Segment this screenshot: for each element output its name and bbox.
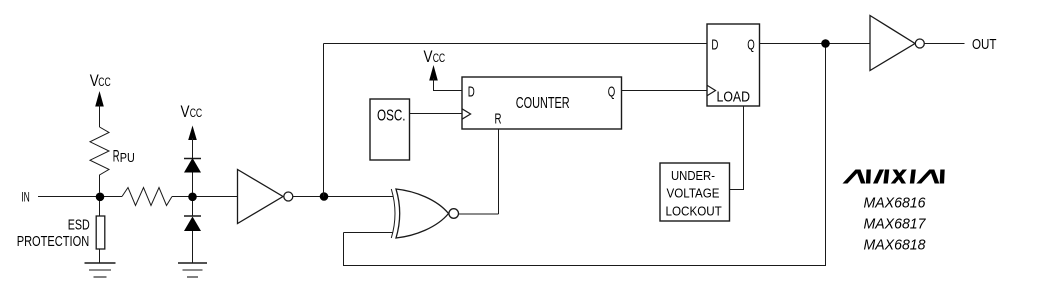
wire OSC to counter clock xyxy=(410,113,463,115)
diode D2 (clamp from GND): cathode bar xyxy=(184,215,201,217)
logo MAXIM A bar xyxy=(883,170,889,184)
wire junction to diode D2 xyxy=(192,201,194,216)
logo MAXIM M2 bar xyxy=(940,170,945,184)
wire counter Q to latch LOAD clock xyxy=(622,90,708,92)
svg-text:PROTECTION: PROTECTION xyxy=(17,234,90,250)
logo MAXIM M1 bar xyxy=(866,170,871,184)
logo MAXIM M1 rise xyxy=(843,170,945,184)
svg-text:PU: PU xyxy=(120,151,135,165)
inverter U4 (output buffer) triangle xyxy=(870,16,915,71)
node junction dot on Q line xyxy=(821,39,830,48)
svg-text:MAX6816: MAX6816 xyxy=(864,195,927,212)
power VCC arrow (counter D) xyxy=(429,65,438,81)
logo MAXIM X fall xyxy=(893,170,907,184)
svg-text:MAX6817: MAX6817 xyxy=(864,216,927,233)
diode D1 triangle xyxy=(184,158,201,173)
wire IN line left segment xyxy=(38,196,122,198)
ground (below ESD) xyxy=(85,263,116,277)
svg-text:Q: Q xyxy=(608,84,616,101)
svg-text:D: D xyxy=(468,84,475,101)
logo MAXIM X rise xyxy=(891,170,907,184)
wire latch Q to output inverter xyxy=(760,43,871,45)
diode D1 (clamp to VCC): cathode bar xyxy=(184,158,201,160)
wire VCC to counter D input xyxy=(434,78,463,91)
power VCC label (diode branch) xyxy=(181,102,203,121)
pin LOAD clock wedge (latch) xyxy=(707,85,716,95)
component ESD protection resistor body xyxy=(96,216,105,249)
wire U4 output to OUT xyxy=(924,43,964,45)
logo MAXIM A rise xyxy=(873,170,884,184)
wire ESD resistor to ground xyxy=(99,249,101,263)
counter U2 box xyxy=(462,77,622,129)
power VCC label (RPU branch) xyxy=(90,71,111,90)
svg-text:VOLTAGE: VOLTAGE xyxy=(667,185,720,200)
wire IN line mid segment (resistor to diode node to inverter) xyxy=(172,196,238,198)
svg-text:CC: CC xyxy=(190,106,203,120)
wire U1 output to XNOR input xyxy=(293,196,393,198)
wire D1 to junction xyxy=(192,173,194,193)
svg-text:LOCKOUT: LOCKOUT xyxy=(666,203,722,218)
node junction dot at RPU branch xyxy=(96,193,105,202)
svg-text:IN: IN xyxy=(21,189,30,205)
svg-text:CC: CC xyxy=(433,51,446,65)
logo MAXIM M2 fall xyxy=(930,170,940,184)
svg-text:R: R xyxy=(495,111,502,128)
power VCC arrow (diode branch) xyxy=(188,126,197,141)
svg-text:MAX6818: MAX6818 xyxy=(864,237,927,254)
wire feedback vertical up from U1 output node xyxy=(323,44,325,197)
svg-text:UNDER-: UNDER- xyxy=(671,168,715,183)
inverter U1 (input buffer) triangle xyxy=(238,170,284,224)
svg-text:OSC.: OSC. xyxy=(377,107,406,124)
gate XNOR extra input arc xyxy=(391,189,395,238)
svg-text:D: D xyxy=(711,36,718,53)
wire XNOR output to counter R xyxy=(498,129,500,214)
resistor R_PU (vertical zigzag) xyxy=(90,127,109,193)
diode D2 triangle xyxy=(184,217,201,232)
wire latch to UVLO xyxy=(730,106,744,190)
node junction dot at diode branch xyxy=(188,193,197,202)
block UNDER-VOLTAGE LOCKOUT box xyxy=(660,163,730,221)
wire XNOR output xyxy=(459,213,499,215)
svg-text:V: V xyxy=(181,102,191,121)
inverter U1 bubble xyxy=(284,192,293,201)
wire junction to ESD resistor xyxy=(99,201,101,216)
wire D2 to ground xyxy=(192,231,194,263)
logo MAXIM I bar xyxy=(910,170,916,184)
logo MAXIM M2 rise xyxy=(916,170,934,184)
latch U3 (D latch with LOAD) box xyxy=(707,24,760,106)
inverter U4 bubble xyxy=(915,39,924,48)
wire feedback bottom rail xyxy=(344,44,826,266)
logo MAXIM M1 fall xyxy=(856,170,866,184)
svg-text:R: R xyxy=(113,148,120,166)
gate XNOR body xyxy=(396,189,449,238)
resistor series (zigzag on IN line) xyxy=(122,188,172,206)
gate XNOR bubble xyxy=(449,209,459,219)
pin clock wedge (counter) xyxy=(462,109,471,119)
svg-text:OUT: OUT xyxy=(972,36,997,53)
svg-text:Q: Q xyxy=(747,36,755,53)
svg-text:ESD: ESD xyxy=(68,218,90,234)
svg-text:CC: CC xyxy=(98,75,111,89)
power VCC label (counter D) xyxy=(424,47,446,66)
svg-text:COUNTER: COUNTER xyxy=(516,95,570,112)
oscillator OSC box xyxy=(370,99,410,160)
svg-text:LOAD: LOAD xyxy=(717,89,751,106)
ground (below D2) xyxy=(178,263,207,277)
node junction dot after U1 xyxy=(320,192,329,201)
wire top rail to latch D xyxy=(324,43,708,45)
wire XNOR bottom input xyxy=(344,232,394,234)
label RPU xyxy=(113,148,135,166)
power VCC arrow (RPU branch) xyxy=(95,91,104,107)
svg-text:V: V xyxy=(424,47,434,66)
